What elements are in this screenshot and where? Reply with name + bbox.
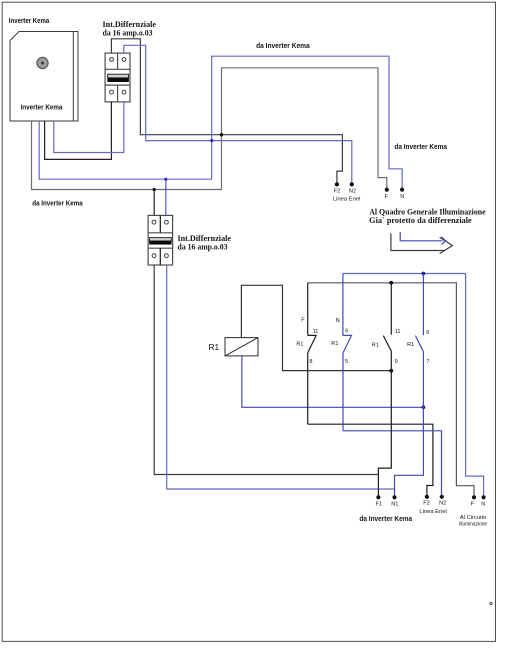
junction dot at K3 top 391.3,282.8 (389, 281, 393, 285)
junction dot blue at K4 top 423.4,273.5 (422, 272, 426, 276)
svg-text:N: N (336, 318, 340, 324)
terminal F2 bottom (425, 495, 429, 499)
contact K4 switch arm (415, 336, 423, 352)
svg-text:7: 7 (426, 359, 429, 365)
wire drop to CB2 right pole (blue) (165, 179, 167, 215)
svg-text:R1: R1 (407, 342, 414, 348)
wire inverter blue out riser to terminal N top (39, 56, 402, 190)
wire K2 pin 5 to bottom terminal N2 (blue) (343, 431, 442, 497)
svg-text:N: N (400, 194, 404, 200)
svg-text:da 16 amp.o.03: da 16 amp.o.03 (103, 28, 153, 38)
terminal F top (385, 188, 389, 192)
svg-text:Linea Enel: Linea Enel (333, 197, 361, 203)
junction dot black at 154.2,189.5 (153, 188, 156, 191)
svg-text:Al Circuito: Al Circuito (460, 515, 486, 521)
CB2 screw terminals (152, 220, 168, 257)
svg-text:N1: N1 (391, 501, 398, 507)
svg-text:6: 6 (426, 330, 429, 336)
CB2 rocker switch (149, 238, 171, 245)
svg-text:o: o (489, 601, 493, 607)
svg-text:da Inverter Kema: da Inverter Kema (256, 43, 310, 50)
svg-text:Linea Enel: Linea Enel (419, 509, 446, 515)
svg-text:da 16 amp.o.03: da 16 amp.o.03 (178, 242, 228, 252)
CB1 rocker switch (108, 74, 129, 82)
circuit breaker CB1 body (105, 53, 130, 102)
inverter U1 indicator circle (37, 57, 48, 68)
contact K2 top lead (pin 6) (342, 274, 344, 336)
junction dot blue at 165.8,179.2 (164, 178, 167, 181)
terminal F2 top (335, 182, 339, 186)
wire inverter L out to CB1 bottom-left (black) (45, 102, 112, 159)
wire CB2 bottom-right to N1 run (blue) (167, 265, 395, 489)
inverter U1 "Inverter Kema" box (10, 32, 78, 122)
svg-text:Gia` protetto da differenziale: Gia` protetto da differenziale (369, 216, 472, 225)
junction dot black at 221.5,134.7 (220, 133, 223, 136)
contact K4 top lead (pin 6) (422, 274, 424, 336)
contact K1 top lead (pin 11) (307, 283, 309, 336)
svg-text:11: 11 (313, 329, 319, 335)
svg-text:Inverter Kema: Inverter Kema (9, 18, 50, 25)
contact K1 switch arm (308, 335, 316, 353)
wire drop to CB2 left pole (black) (153, 190, 155, 216)
terminal N top (400, 188, 404, 192)
svg-text:N2: N2 (349, 188, 356, 194)
CB1 value label "Int.Differnziale da 16 amp.o.03" (103, 19, 157, 37)
svg-text:11: 11 (395, 329, 401, 335)
svg-text:Al Quadro Generale Illuminazio: Al Quadro Generale Illuminazione (369, 208, 486, 217)
wire F bus from K1 top across to bottom terminal F (black then gray drop) (308, 283, 474, 498)
wire N bus from K2 top across to bottom terminal N (blue) (343, 274, 484, 498)
svg-text:F2: F2 (334, 188, 341, 194)
svg-text:R1: R1 (372, 343, 379, 349)
terminal N2 top (350, 182, 354, 186)
wire inverter gray out riser to terminal F top (32, 68, 387, 190)
svg-text:da Inverter Kema: da Inverter Kema (394, 144, 447, 151)
wire CB1 top-left to terminal F2 top (black) (111, 39, 342, 185)
label Al Quadro Generale Illuminazione (369, 208, 486, 226)
terminal N2 bottom (440, 495, 444, 499)
label Al Circuito Illuminazione (459, 515, 487, 528)
contact K3 top lead (pin 11) (390, 283, 392, 335)
svg-text:N: N (481, 502, 485, 508)
contact K3 bottom lead (pin 9) to terminal F1 (378, 352, 391, 498)
svg-text:da Inverter Kema: da Inverter Kema (359, 516, 412, 523)
junction dot blue at 423.4,407.3 (422, 405, 426, 409)
contact K3 switch arm (383, 336, 391, 352)
svg-text:Illuminazione: Illuminazione (459, 522, 487, 528)
wire relay coil top loop to contact K3 pin 9 (black) (241, 285, 391, 370)
svg-text:9: 9 (395, 359, 398, 365)
arrow blue (to lighting board) (400, 232, 445, 245)
CB1 screw terminals (110, 58, 126, 95)
junction dot blue at 211.7,140.6 (210, 139, 213, 142)
svg-text:N2: N2 (439, 501, 446, 507)
contact K2 switch arm (343, 335, 352, 353)
svg-text:F2: F2 (423, 501, 430, 507)
relay coil R1 (225, 338, 258, 356)
terminal F1 bottom (376, 495, 380, 499)
wire relay coil bottom to contact K4 lead (blue) (242, 356, 424, 407)
svg-text:F1: F1 (376, 501, 383, 507)
circuit breaker CB2 body (148, 215, 173, 265)
svg-text:F: F (301, 317, 305, 323)
CB2 value label "Int.Differnziale da 16 amp.o.03" (178, 233, 232, 252)
contact K1 bottom lead (pin 8) (307, 353, 309, 424)
wire CB1 top-right to terminal N2 top (blue) (124, 45, 352, 184)
svg-text:6: 6 (345, 329, 348, 335)
svg-text:8: 8 (309, 359, 312, 365)
svg-text:Inverter Kema: Inverter Kema (21, 103, 64, 112)
wire K1 pin 8 to bottom terminal F2 (black) (308, 424, 433, 497)
wire CB2 bottom-left to F1 run (black) (154, 265, 378, 475)
svg-text:R1: R1 (209, 342, 220, 352)
wire inverter N out to CB1 bottom-right (blue) (54, 102, 124, 153)
terminal F bottom (472, 495, 476, 499)
arrow black (to lighting board) (391, 233, 453, 253)
svg-text:R1: R1 (331, 341, 338, 347)
junction dot at K3 pin 9 (389, 369, 393, 373)
svg-text:F: F (471, 502, 475, 508)
contact K2 bottom lead (pin 5) (342, 353, 344, 431)
svg-text:5: 5 (345, 359, 348, 365)
svg-text:F: F (384, 194, 388, 200)
terminal N bottom (482, 495, 486, 499)
svg-text:da Inverter Kema: da Inverter Kema (32, 201, 82, 208)
terminal N1 bottom (392, 495, 396, 499)
svg-text:R1: R1 (296, 341, 303, 347)
contact K4 bottom lead (pin 7) to terminal N1 (395, 351, 424, 497)
